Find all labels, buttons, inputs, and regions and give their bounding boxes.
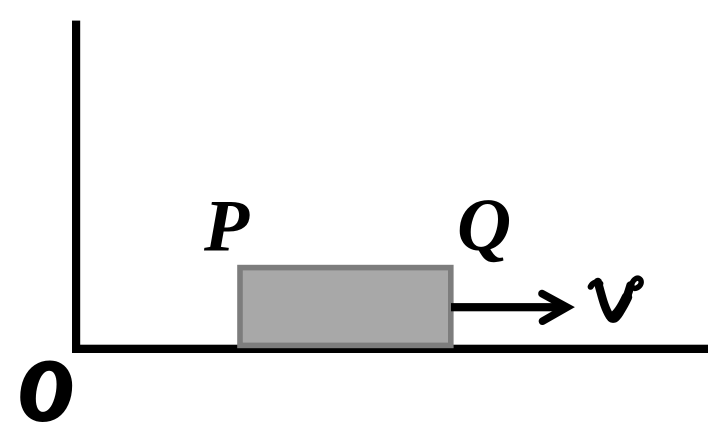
floor (horizontal ground line) bbox=[72, 345, 708, 353]
svg-text:Q: Q bbox=[457, 184, 511, 267]
block PQ bbox=[240, 268, 451, 346]
arrow shaft (velocity vector) bbox=[451, 303, 565, 311]
svg-text:O: O bbox=[20, 344, 71, 436]
wall (vertical axis line) bbox=[72, 21, 80, 353]
label v (velocity) bbox=[591, 278, 642, 318]
svg-text:P: P bbox=[203, 186, 250, 268]
arrowhead bbox=[542, 294, 567, 322]
